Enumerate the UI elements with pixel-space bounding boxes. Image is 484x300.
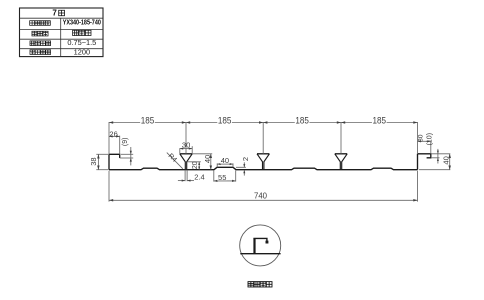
- radius leader R4: [167, 153, 183, 169]
- svg-text:YX340-185-740: YX340-185-740: [63, 19, 102, 27]
- svg-text:185: 185: [141, 115, 155, 126]
- svg-text:40: 40: [221, 156, 229, 165]
- profile pan line with beads: [109, 167, 418, 169]
- profile right seam upstand: [417, 154, 419, 170]
- svg-text:20: 20: [192, 161, 199, 169]
- svg-text:30: 30: [182, 140, 190, 149]
- dim 30 rib top width: [180, 146, 192, 154]
- svg-text:(10): (10): [427, 133, 434, 145]
- table title 7 hao: [52, 9, 64, 18]
- svg-text:40: 40: [203, 155, 212, 163]
- svg-text:38: 38: [89, 157, 98, 165]
- dim 26 hook width: [109, 135, 120, 154]
- profile rib 1: [180, 154, 192, 170]
- profile left seam upstand: [108, 154, 110, 169]
- svg-text:0.75~1.5: 0.75~1.5: [67, 38, 96, 47]
- dim text 185 second: [217, 116, 232, 124]
- detail seam hook end blob: [266, 241, 269, 244]
- svg-text:185: 185: [373, 115, 387, 126]
- dim text 40 bead: [220, 157, 230, 163]
- svg-text:7: 7: [52, 9, 57, 18]
- dimension line 740 bottom: [109, 199, 418, 202]
- svg-text:26: 26: [109, 129, 117, 138]
- dim 20 apex height: [188, 162, 201, 170]
- dim 55 bead base width: [214, 170, 236, 182]
- detail label dajie fangshi: [248, 282, 272, 287]
- dim text 185 first: [140, 116, 155, 124]
- dim 30 right hook width: [418, 140, 431, 154]
- dim text 55: [217, 174, 227, 180]
- dim (10) right hook drop: [431, 149, 440, 164]
- dim 2 bead height: [236, 162, 246, 175]
- svg-text:40: 40: [441, 156, 450, 164]
- extension lines for 185 dims: [109, 122, 418, 154]
- svg-text:185: 185: [218, 115, 232, 126]
- dim 40 rib height: [193, 154, 213, 170]
- dimension line 185 x4 top: [109, 121, 418, 124]
- svg-text:740: 740: [254, 191, 267, 200]
- profile rib 2: [257, 154, 269, 170]
- detail seam vertical: [253, 238, 255, 253]
- detail seam base line: [240, 253, 280, 255]
- svg-text:(9): (9): [122, 138, 129, 147]
- dim 40 bead top width: [217, 163, 233, 167]
- profile rib 3: [335, 154, 347, 170]
- spec table frame: [20, 8, 104, 57]
- dim 40 right height: [419, 154, 451, 170]
- svg-text:2: 2: [241, 157, 250, 161]
- table row cailiao houdu / 0.75-1.5: [30, 38, 96, 47]
- table row zhankai kuandu / 1200: [30, 47, 90, 56]
- svg-text:2.4: 2.4: [194, 173, 204, 182]
- svg-text:55: 55: [218, 173, 226, 182]
- profile right hook: [418, 154, 431, 158]
- dim (9) hook drop: [120, 147, 134, 165]
- svg-text:30: 30: [417, 134, 424, 142]
- dim 2.4 stem width: [178, 170, 194, 182]
- svg-text:185: 185: [295, 115, 309, 126]
- detail view circle: [240, 225, 281, 266]
- extension lines for 740 dim: [109, 171, 418, 202]
- dim text 185 third: [295, 116, 310, 124]
- profile left hook: [109, 154, 120, 158]
- svg-text:1200: 1200: [74, 47, 90, 56]
- dim 38 left height: [96, 154, 108, 169]
- detail seam top hook: [253, 238, 267, 242]
- table row shebei xinghao / YX340-185-740: [30, 19, 102, 27]
- table row yuancailiao / duxinban: [32, 30, 91, 36]
- dim text 185 fourth: [372, 116, 387, 124]
